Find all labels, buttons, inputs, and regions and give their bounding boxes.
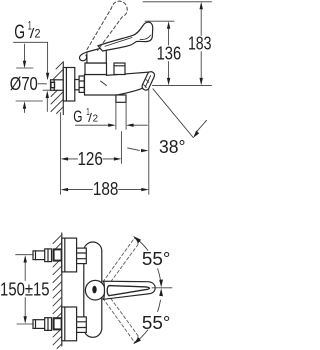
svg-text:55°: 55° [142, 312, 171, 333]
svg-text:G: G [14, 21, 25, 43]
svg-text:2: 2 [35, 27, 41, 41]
svg-text:Ø70: Ø70 [10, 74, 38, 94]
svg-text:38°: 38° [159, 137, 186, 157]
svg-text:G: G [73, 108, 82, 126]
svg-text:126: 126 [77, 149, 103, 169]
svg-text:136: 136 [157, 44, 182, 64]
svg-text:150±15: 150±15 [0, 279, 50, 300]
svg-text:55°: 55° [142, 248, 171, 269]
svg-text:188: 188 [93, 179, 119, 199]
svg-text:183: 183 [188, 33, 212, 53]
svg-text:2: 2 [93, 114, 99, 125]
